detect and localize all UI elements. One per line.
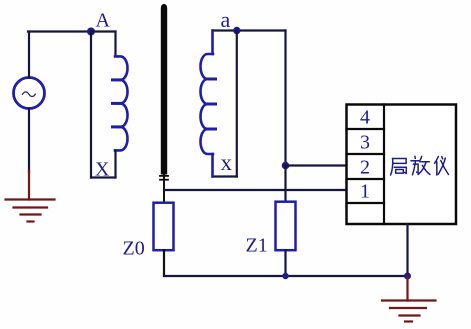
svg-text:a: a <box>221 7 231 32</box>
coil L1 <box>115 56 128 150</box>
winding T2 right vertical <box>236 31 238 177</box>
wire to terminal 2 <box>286 164 348 166</box>
wire detector to ground bus <box>406 224 408 276</box>
label JuFangYi glyph Yi <box>435 157 449 176</box>
node Z1 bottom junction <box>282 273 288 279</box>
ground left <box>6 200 55 222</box>
winding T2 top stub <box>211 31 214 55</box>
wire bottom bus <box>164 275 408 277</box>
winding T2 bottom stub <box>211 154 214 177</box>
node a <box>233 27 240 34</box>
wire source bottom stub <box>28 109 30 173</box>
node A <box>87 28 95 36</box>
svg-text:x: x <box>221 150 233 175</box>
svg-text:4: 4 <box>360 107 370 129</box>
svg-text:1: 1 <box>360 181 370 203</box>
svg-text:A: A <box>96 10 111 32</box>
svg-text:Z1: Z1 <box>246 235 268 257</box>
svg-text:X: X <box>95 159 110 181</box>
wire tap to terminal 1 <box>164 189 347 191</box>
node ground junction <box>404 273 411 280</box>
wire Z0 bottom <box>163 250 165 276</box>
PD detector terminal divider <box>383 105 385 225</box>
wire Z1 bottom <box>284 250 286 276</box>
label JuFangYi glyph Ju <box>391 159 407 176</box>
ground right <box>382 301 436 322</box>
winding T1 left vertical <box>90 32 92 178</box>
svg-text:2: 2 <box>360 157 370 179</box>
winding T1 top wire <box>91 30 116 32</box>
winding T1 bottom wire <box>91 176 116 178</box>
winding T2 top wire <box>213 29 286 31</box>
impedance Z1 <box>276 202 296 251</box>
svg-text:3: 3 <box>360 132 370 154</box>
coil L2 junction wedges <box>208 79 216 129</box>
wire source top to corner <box>28 32 30 78</box>
winding T2 bottom wire <box>213 175 237 177</box>
PD detector U1 box <box>347 105 457 225</box>
bushing bar <box>161 4 167 175</box>
bushing tap ticks <box>160 176 168 180</box>
winding T1 top stub <box>114 32 116 57</box>
coil L2 <box>201 54 213 154</box>
node junction to terminal 2 <box>282 162 290 170</box>
winding T1 bottom stub <box>114 150 116 177</box>
label JuFangYi glyph Fang <box>411 156 430 175</box>
ac source G1 <box>14 78 45 109</box>
coil L1 junction wedges <box>113 80 121 127</box>
terminal cell lines <box>347 129 385 203</box>
wire a-node to Z1 branch <box>284 31 286 166</box>
wire ground lead (red) <box>28 171 30 200</box>
wire bushing tap down to Z0 <box>163 175 165 203</box>
wire top-left horizontal to node A <box>28 30 91 32</box>
wire junction down to Z1 <box>284 166 286 202</box>
svg-text:Z0: Z0 <box>123 238 145 260</box>
wire ground lead right (red) <box>406 276 408 301</box>
impedance Z0 <box>154 203 174 251</box>
